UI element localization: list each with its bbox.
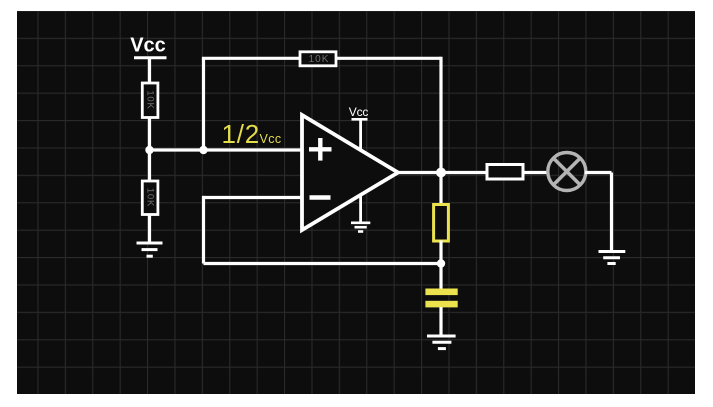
- op-amp U1 triangle: [302, 115, 398, 230]
- ground G3 (lamp): [599, 252, 626, 264]
- resistor R3 10K (feedback): [300, 52, 336, 66]
- wire divider node to op-amp + input: [150, 148, 303, 151]
- wire feedback bottom horizontal: [204, 262, 442, 265]
- resistor R1 10K (upper divider): [142, 83, 158, 118]
- label 1/2 Vcc: [222, 119, 282, 149]
- wire top feedback right segment: [336, 57, 441, 60]
- wire lamp to right: [585, 171, 612, 174]
- lamp L1: [548, 153, 586, 191]
- wire feedback down to output node: [439, 57, 442, 173]
- wire feedback left vertical: [202, 196, 205, 264]
- svg-text:1/2: 1/2: [222, 119, 261, 149]
- resistor R4 (output, white): [487, 165, 523, 180]
- wire R2 to ground G1: [148, 214, 151, 243]
- svg-text:10K: 10K: [145, 188, 156, 207]
- capacitor C1 (yellow): [425, 289, 457, 308]
- svg-text:Vcc: Vcc: [130, 35, 166, 57]
- ground G1 (divider): [137, 243, 163, 256]
- svg-text:Vcc: Vcc: [349, 105, 369, 119]
- op-amp - symbol: [310, 195, 331, 199]
- wire - input feedback left: [204, 196, 303, 199]
- svg-text:Vcc: Vcc: [260, 132, 282, 146]
- svg-text:10K: 10K: [309, 54, 330, 65]
- wire op-amp V- pin: [359, 195, 362, 223]
- ground G2 (op-amp): [351, 223, 370, 232]
- wire capacitor to ground G4: [439, 307, 442, 336]
- wire op-amp Vcc pin: [359, 119, 362, 150]
- wire node B to capacitor: [439, 264, 442, 290]
- op-amp + symbol: [309, 138, 332, 161]
- node divider midpoint: [145, 146, 153, 154]
- wire R4 to lamp: [523, 171, 548, 174]
- op-amp Vcc pin bar: [352, 118, 368, 121]
- node A feedback tap: [199, 146, 207, 154]
- Vcc supply bar symbol (left): [134, 56, 167, 59]
- wire Vcc bar to R1: [148, 58, 151, 84]
- ground G4 (capacitor): [427, 336, 456, 349]
- wire output node down to R5: [439, 173, 442, 206]
- svg-text:10K: 10K: [145, 90, 156, 109]
- resistor R5 (yellow): [434, 205, 449, 242]
- wire op-amp output: [397, 171, 487, 174]
- wire down to ground G3: [610, 173, 613, 252]
- wire divider node to R2: [148, 150, 151, 182]
- wire node A up: [202, 58, 205, 150]
- wire R1 to divider node: [148, 118, 151, 151]
- wire top feedback left segment: [202, 57, 300, 60]
- node B: [437, 259, 445, 267]
- node output: [436, 168, 446, 178]
- wire R5 to node B: [439, 241, 442, 264]
- resistor R2 10K (lower divider): [142, 181, 158, 215]
